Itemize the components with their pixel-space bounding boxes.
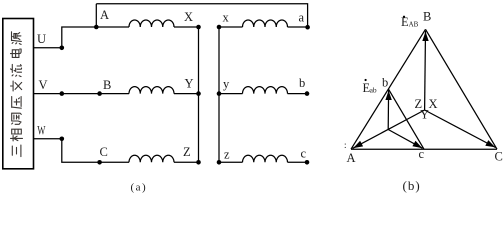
wire x lead [219, 26, 243, 28]
hanzi column: 三相调压交流电源 rotated, bottom to top [11, 32, 23, 157]
svg-text:C: C [100, 145, 108, 159]
svg-text:(a): (a) [131, 182, 148, 194]
phasor edge b-c [389, 89, 424, 149]
hanzi 相 [11, 129, 23, 141]
node A junction dot [94, 25, 99, 30]
svg-text:z: z [224, 148, 230, 162]
node B junction dot [97, 91, 102, 96]
wire V from box [34, 93, 130, 95]
winding CZ [129, 155, 174, 162]
svg-text:AB: AB [409, 20, 419, 28]
phasor edge B-C [426, 29, 498, 149]
wire primary star bus XYZ [198, 27, 200, 162]
hanzi 流 [11, 64, 22, 76]
arrowhead at B [422, 32, 428, 42]
svg-text:W: W [37, 124, 45, 138]
svg-text:V: V [39, 78, 48, 92]
wire c terminal [288, 161, 308, 163]
node U terminal dot [60, 46, 65, 51]
phasor edge A-B [351, 29, 426, 149]
wire U from box [34, 47, 62, 49]
node X corner dot [196, 25, 201, 30]
winding xa [243, 20, 288, 27]
hanzi 调 [12, 113, 22, 124]
node Z corner dot [196, 160, 201, 165]
phasor vector n to c [388, 130, 422, 149]
svg-text:x: x [223, 11, 230, 25]
svg-text::: : [344, 140, 347, 150]
svg-text:U: U [37, 32, 46, 46]
wire Z to bus [174, 161, 199, 163]
phasor vector N to A [353, 110, 425, 148]
node C junction dot [97, 160, 102, 165]
hanzi 压 [12, 97, 22, 109]
svg-text:Y: Y [420, 108, 429, 122]
hanzi 三 [12, 145, 21, 157]
node W terminal dot [60, 137, 65, 142]
phasor vector N to B [424, 31, 427, 110]
wire y lead [219, 93, 243, 95]
node Y junction dot [196, 91, 201, 96]
svg-text:c: c [419, 147, 425, 161]
phasor vector n to b [387, 90, 389, 130]
winding AX [129, 20, 174, 27]
wire A tap lead [95, 4, 97, 27]
arrowhead at C [485, 140, 495, 147]
wire Y to bus [174, 93, 199, 95]
winding yb [243, 87, 288, 94]
svg-text:(b): (b) [403, 178, 421, 193]
wire b terminal [288, 93, 308, 95]
wire W from box [34, 138, 62, 140]
svg-text:b: b [299, 76, 305, 90]
wire a terminal [288, 26, 308, 28]
arrowhead at c [412, 141, 422, 148]
hanzi 电 [11, 49, 22, 57]
node V terminal dot [60, 91, 65, 96]
svg-text:C: C [495, 150, 503, 164]
svg-text:Z: Z [183, 145, 191, 159]
svg-text:y: y [223, 77, 230, 91]
phasor vector N to C [425, 110, 496, 148]
svg-text:ab: ab [370, 86, 377, 95]
node b terminal dot [305, 91, 310, 96]
svg-text:X: X [429, 97, 438, 111]
power source box [3, 19, 34, 169]
svg-text:A: A [100, 8, 109, 22]
winding zc [243, 155, 288, 162]
node z corner dot [217, 160, 222, 165]
svg-text:B: B [103, 78, 111, 92]
svg-text:a: a [299, 11, 305, 25]
svg-text:X: X [184, 10, 193, 24]
wire secondary star bus xyz [218, 27, 220, 162]
node x corner dot [217, 25, 222, 30]
arrowhead at b [385, 91, 391, 101]
svg-text:A: A [347, 151, 356, 165]
hanzi 源 [12, 32, 22, 45]
node c terminal dot [305, 160, 310, 165]
wire top link A to a [96, 4, 307, 27]
arrowhead at A [353, 141, 363, 148]
node y junction dot [217, 91, 222, 96]
node a terminal dot [305, 25, 310, 30]
hanzi 交 [11, 81, 22, 91]
svg-text:b: b [382, 76, 388, 90]
wire X to bus [174, 26, 199, 28]
svg-text:c: c [301, 147, 307, 161]
winding BY [129, 87, 174, 94]
wire z lead [219, 161, 243, 163]
svg-text:Y: Y [185, 77, 194, 91]
phasor edge A-C baseline [351, 148, 497, 150]
wire W dropper to C row [62, 139, 129, 163]
svg-text:B: B [423, 10, 431, 24]
wire U riser to A row [62, 27, 129, 48]
